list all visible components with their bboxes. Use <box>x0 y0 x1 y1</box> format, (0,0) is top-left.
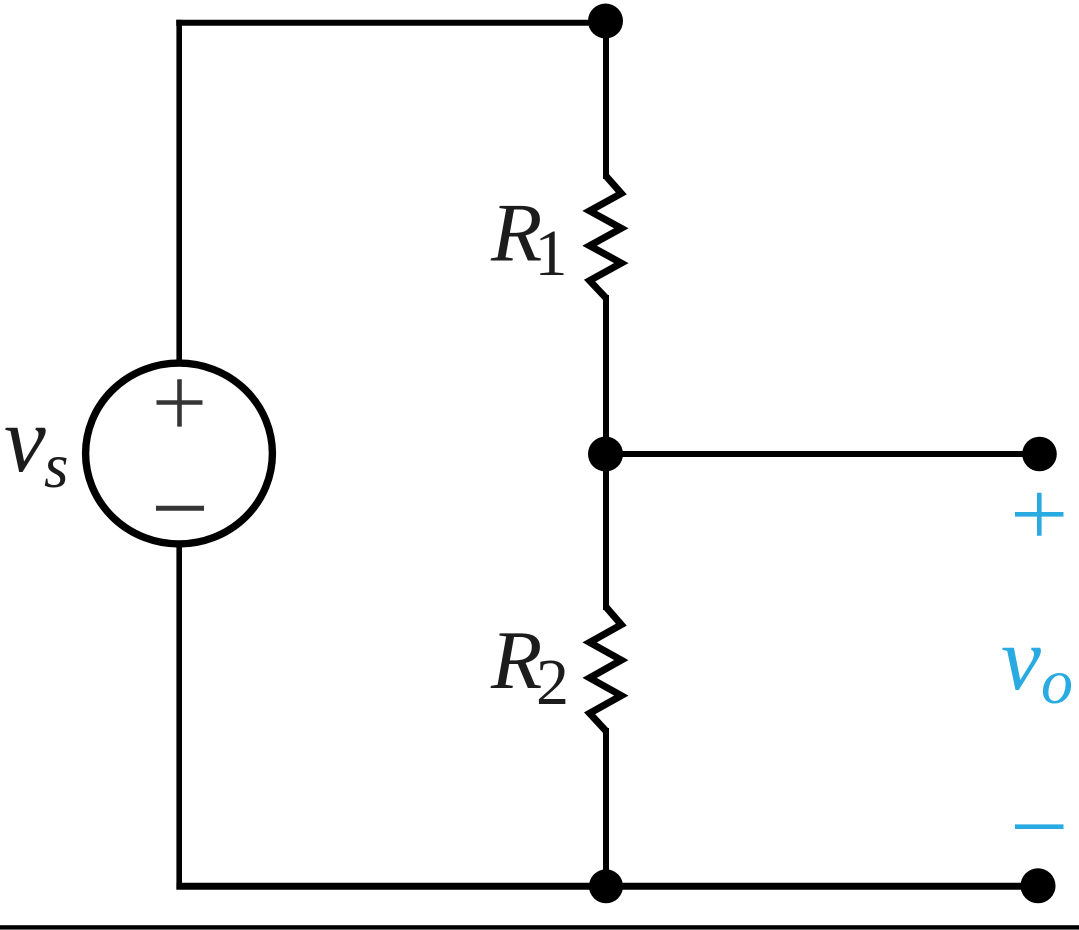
voltage source VS circle <box>86 363 273 544</box>
wire right vertical: R1 to node B <box>603 295 609 456</box>
wire bottom horizontal <box>176 883 1040 890</box>
output minus sign <box>1015 824 1064 829</box>
bottom junction dot <box>589 869 623 903</box>
resistor R2 <box>590 607 622 731</box>
node B junction dot <box>588 437 623 472</box>
output top terminal dot <box>1022 437 1057 472</box>
wire right vertical: node B to R2 <box>603 452 609 610</box>
resistor R1 <box>590 176 622 298</box>
minus sign inside source <box>156 506 204 511</box>
output bottom terminal dot <box>1021 868 1056 903</box>
svg-text:v: v <box>4 388 46 492</box>
svg-text:s: s <box>44 431 69 501</box>
plus sign inside source <box>157 379 203 426</box>
wire middle horizontal: node B to output <box>605 451 1040 457</box>
svg-text:v: v <box>1001 610 1041 709</box>
wire top horizontal from source branch to node A <box>176 20 606 26</box>
output plus sign <box>1015 493 1064 536</box>
wire right vertical: R2 to bottom wire <box>603 728 609 886</box>
svg-text:2: 2 <box>536 646 569 719</box>
wire right vertical: node A to R1 <box>603 21 609 179</box>
label vo <box>1001 610 1073 717</box>
svg-text:o: o <box>1041 646 1073 717</box>
wire left upper vertical <box>176 20 182 364</box>
svg-text:R: R <box>490 614 542 707</box>
svg-text:1: 1 <box>535 217 568 290</box>
node A junction dot <box>588 4 623 39</box>
label R1 <box>490 187 568 291</box>
bottom page rule <box>0 925 1079 929</box>
label R2 <box>490 614 569 719</box>
wire left lower vertical <box>176 542 182 889</box>
label vs <box>4 388 69 501</box>
